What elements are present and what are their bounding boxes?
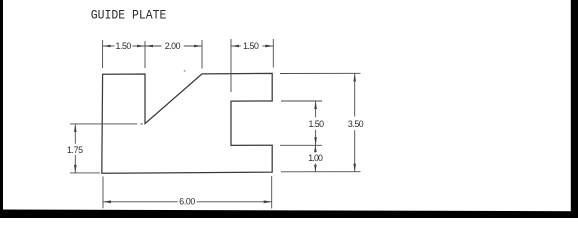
svg-text:6.00: 6.00	[179, 197, 195, 207]
svg-text:1.50: 1.50	[309, 119, 325, 129]
svg-text:1.00: 1.00	[308, 153, 323, 163]
svg-text:3.50: 3.50	[348, 119, 364, 129]
svg-text:1.50: 1.50	[116, 41, 132, 51]
svg-text:1.50: 1.50	[243, 41, 259, 51]
svg-text:GUIDE PLATE: GUIDE PLATE	[91, 8, 167, 22]
svg-text:1.75: 1.75	[67, 145, 83, 155]
svg-text:2.00: 2.00	[165, 41, 181, 51]
